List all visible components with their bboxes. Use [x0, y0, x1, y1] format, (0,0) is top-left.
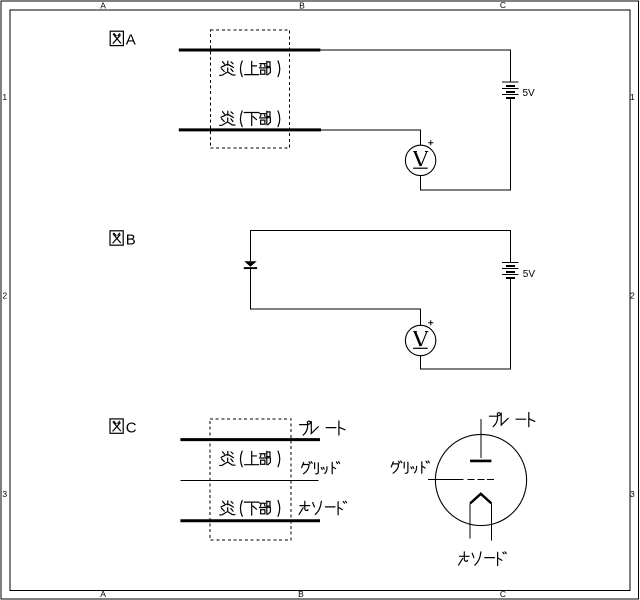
svg-text:1: 1: [630, 92, 635, 102]
svg-text:3: 3: [630, 489, 635, 499]
tube plate bar: [470, 460, 491, 463]
text 炎（下部） fig A: [220, 111, 280, 127]
svg-text:C: C: [126, 420, 137, 437]
label 図C: [110, 419, 137, 437]
tube cathode peak: [470, 494, 491, 504]
battery BT2: [502, 262, 519, 278]
diode D1: [244, 261, 257, 268]
label グリッド (fig C): [302, 462, 340, 474]
voltmeter V1: [405, 140, 435, 175]
flame dashed box (fig C): [210, 419, 291, 540]
tube cathode legs: [470, 503, 491, 540]
svg-text:C: C: [500, 0, 506, 10]
tube plate lead: [480, 419, 482, 458]
tube envelope U1: [435, 434, 526, 525]
battery BT1: [502, 82, 519, 98]
label カソード (fig C): [299, 501, 347, 515]
grid electrode line (fig C): [180, 479, 318, 481]
wire top rail (fig B): [250, 230, 510, 262]
flame dashed box (fig A): [211, 30, 290, 148]
electrode upper plate (fig A): [179, 49, 321, 52]
label カソード (tube): [459, 552, 507, 566]
svg-text:2: 2: [2, 291, 7, 301]
tube grid lead (solid): [428, 478, 463, 480]
text 炎（下部） fig C: [220, 501, 280, 517]
svg-text:A: A: [126, 32, 136, 49]
svg-text:C: C: [500, 589, 506, 599]
text 炎（上部） fig C: [220, 451, 280, 467]
voltmeter V2: [405, 320, 435, 355]
text 炎（上部） fig A: [220, 61, 280, 77]
svg-text:5V: 5V: [523, 269, 536, 280]
label グリッド (tube): [391, 461, 429, 473]
svg-text:5V: 5V: [523, 88, 536, 99]
wire diode to voltmeter (fig B): [250, 269, 420, 326]
label プレート (tube): [490, 413, 535, 427]
svg-text:B: B: [298, 589, 304, 599]
wire upper electrode to battery (fig A): [320, 50, 510, 82]
cathode electrode line (fig C): [180, 519, 320, 522]
svg-text:A: A: [100, 0, 106, 10]
svg-text:1: 1: [2, 92, 7, 102]
plate electrode line (fig C): [180, 438, 320, 441]
label 図A: [110, 31, 136, 49]
svg-text:2: 2: [630, 291, 635, 301]
electrode lower plate (fig A): [179, 128, 321, 131]
wire battery to voltmeter bottom (fig B): [421, 278, 511, 369]
svg-text:B: B: [299, 0, 305, 10]
svg-text:B: B: [126, 231, 136, 248]
svg-text:3: 3: [2, 489, 7, 499]
tube grid (dashed): [468, 478, 495, 480]
label プレート (fig C): [300, 421, 345, 435]
svg-text:A: A: [100, 589, 106, 599]
label 図B: [110, 231, 136, 249]
wire battery to bottom rail (fig A): [421, 98, 511, 190]
wire lower electrode to voltmeter (fig A): [321, 130, 421, 145]
